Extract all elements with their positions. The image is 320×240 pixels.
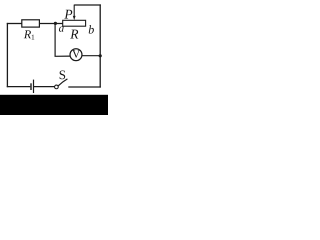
wire voltmeter to right node [82,55,101,57]
svg-text:a: a [59,23,65,35]
rheostat R body [63,20,86,26]
node junction at a [54,22,57,25]
svg-text:R: R [69,26,79,41]
resistor R1 [22,20,40,27]
wire switch to bottom-right corner [68,86,101,88]
voltmeter V [70,49,82,61]
wire battery to switch [34,86,55,88]
wire left side [6,23,8,87]
svg-text:P: P [63,7,72,22]
switch S [55,79,68,89]
wire voltmeter branch horizontal [55,55,71,57]
wire top-left to R1 [7,23,22,25]
wire slider to top-right corner [74,4,101,6]
battery cell [31,80,34,93]
svg-text:1: 1 [31,33,35,42]
node junction right [99,54,102,57]
svg-text:V: V [72,49,81,61]
wire R1 to rheostat terminal a [39,23,63,25]
svg-text:b: b [88,23,94,37]
slider arrow P [73,5,76,21]
wire voltmeter branch vertical [54,23,56,56]
wire bottom-left to battery [7,86,31,88]
svg-text:S: S [59,67,66,82]
wire right side [99,4,101,87]
